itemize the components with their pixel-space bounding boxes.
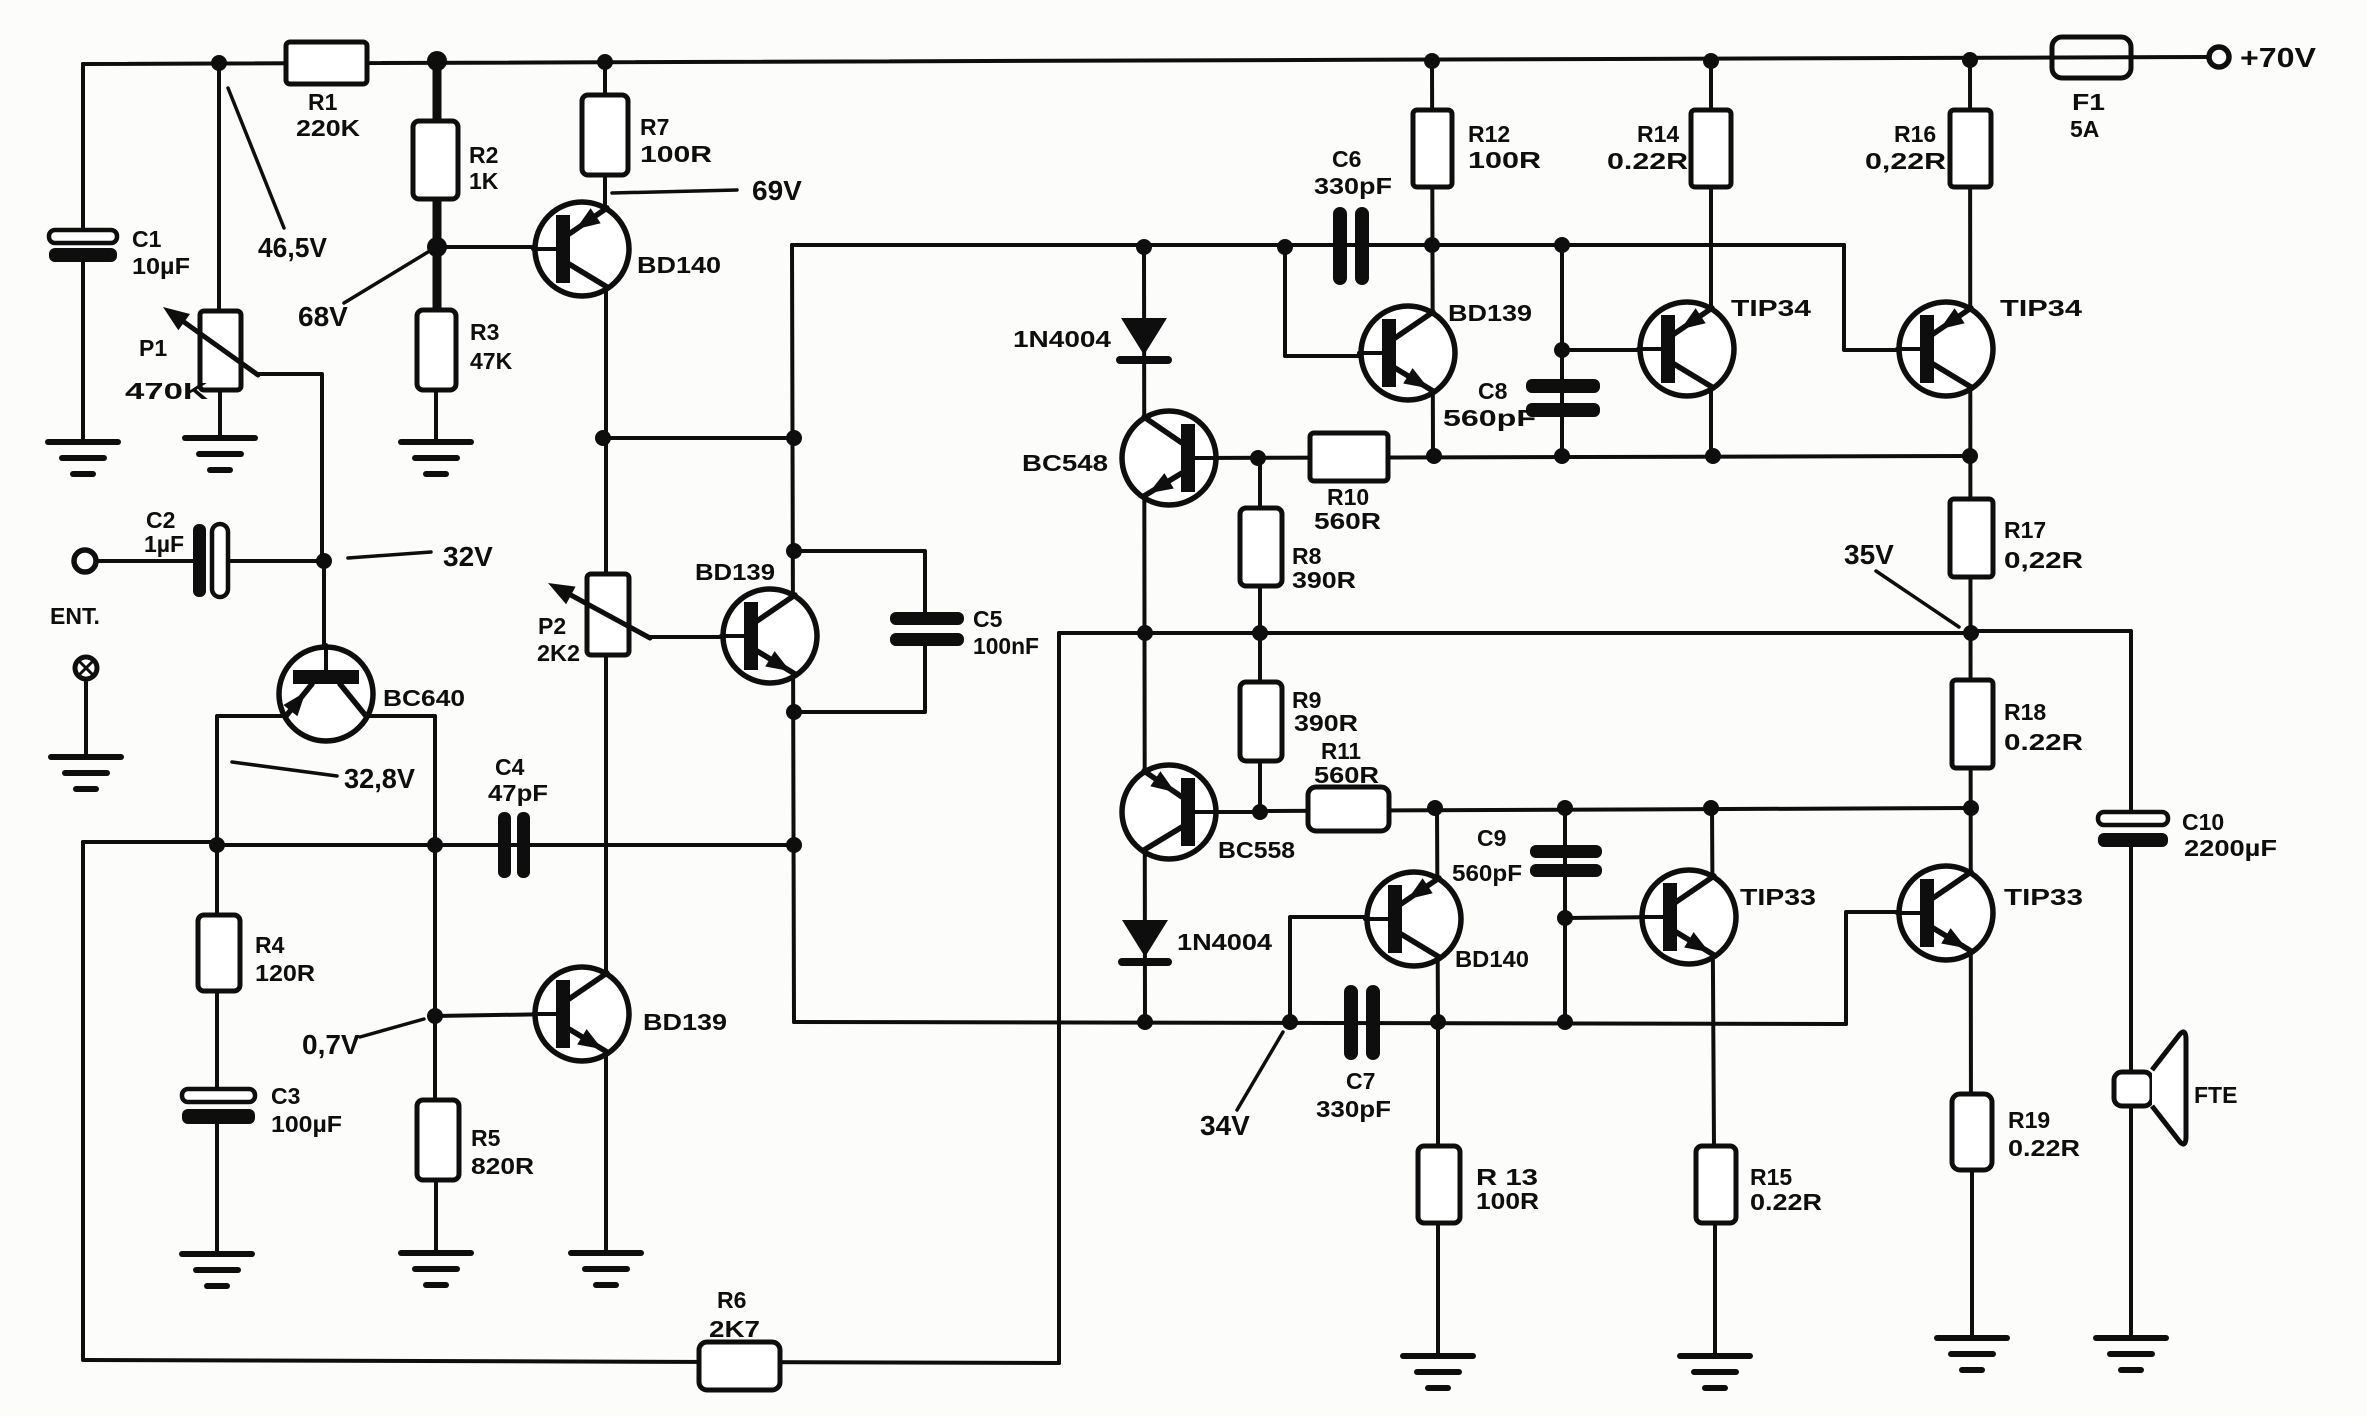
wire R13 to ground [1436, 1221, 1440, 1356]
svg-text:1N4004: 1N4004 [1013, 326, 1111, 352]
transistor Q8 BD140 (lower driver PNP) [1367, 872, 1461, 966]
wire TIP34 mid base [1562, 348, 1667, 352]
svg-text:R15: R15 [1750, 1164, 1792, 1190]
wire C1 to ground [81, 260, 85, 442]
transistor Q6 BC558 (PNP) [1122, 765, 1216, 859]
svg-text:R12: R12 [1468, 121, 1510, 147]
wire BC558 base [1194, 810, 1260, 814]
junction node C9 tap [1557, 910, 1573, 926]
terminal ENT ground lug [75, 657, 97, 679]
wire R2 feed (thick) [433, 61, 442, 125]
svg-text:BC548: BC548 [1022, 450, 1108, 476]
junction node R12 bottom [1424, 237, 1440, 253]
ground (R5) [401, 1250, 471, 1256]
wire C1 branch [81, 64, 85, 232]
speaker FTE [2114, 1072, 2152, 1106]
junction node 0.7V [427, 1008, 443, 1024]
terminal ENT input [74, 550, 96, 572]
svg-text:470K: 470K [125, 378, 209, 404]
wire BD139 base drop [1285, 247, 1385, 356]
svg-text:R8: R8 [1292, 543, 1322, 569]
resistor R11 560R [1308, 787, 1389, 831]
ground (C1) [48, 439, 118, 445]
wire emitter degeneration bus [217, 843, 794, 847]
svg-text:100R: 100R [640, 141, 713, 167]
ground (R19) [1937, 1335, 2007, 1341]
svg-text:F1: F1 [2072, 89, 2105, 115]
svg-text:220K: 220K [296, 115, 360, 141]
wire R11 output wire [1260, 808, 1971, 811]
fuse F1 5A [2052, 37, 2131, 78]
wire TIP33 mid base [1565, 917, 1667, 918]
svg-text:R19: R19 [2008, 1107, 2050, 1133]
svg-text:R5: R5 [471, 1125, 501, 1151]
wire BD140 collector to P2 column [604, 207, 608, 1253]
junction node TIP34 emitter [1705, 448, 1721, 464]
capacitor C5 100nF [890, 612, 964, 625]
resistor R10 560R [1310, 433, 1388, 481]
junction node BD139 emitter [1426, 448, 1442, 464]
svg-text:BC558: BC558 [1218, 837, 1295, 863]
wire C8 column [1560, 245, 1564, 456]
svg-text:R2: R2 [469, 142, 498, 168]
wire left feedback drop [81, 842, 85, 1360]
junction node C5 bottom [786, 704, 802, 720]
wire R12 column [1432, 61, 1433, 456]
svg-text:5A: 5A [2070, 116, 2099, 142]
resistor R9 390R [1240, 682, 1282, 761]
transistor Q10 TIP34 (right PNP) [1899, 302, 1993, 396]
capacitor C9 560pF [1530, 845, 1602, 858]
svg-text:TIP34: TIP34 [2000, 295, 2082, 321]
ground (Q4 emitter) [571, 1250, 641, 1256]
svg-text:TIP33: TIP33 [2004, 884, 2083, 910]
svg-text:0,7V: 0,7V [302, 1029, 360, 1060]
svg-text:ENT.: ENT. [50, 603, 100, 629]
wire upper signal bus [792, 243, 1844, 247]
junction node rail-R7 [597, 54, 613, 70]
svg-text:46,5V: 46,5V [258, 232, 327, 263]
wire BD140 base [441, 245, 557, 249]
svg-text:R1: R1 [308, 89, 338, 115]
wire R19 to ground [1970, 1170, 1974, 1338]
resistor R8 390R [1240, 508, 1282, 586]
svg-text:34V: 34V [1200, 1110, 1250, 1141]
resistor R3 47K [417, 310, 456, 390]
junction node R11 right [1427, 800, 1443, 816]
ground (R3) [401, 439, 471, 445]
svg-text:100nF: 100nF [973, 633, 1039, 659]
junction node emitter left [209, 837, 225, 853]
resistor R12 100R [1413, 110, 1452, 187]
wire VAS column [792, 245, 794, 1022]
junction node rail-R12 [1424, 53, 1440, 69]
wire left feedback loop [83, 840, 217, 844]
wire BD140 collector node [603, 436, 794, 440]
svg-text:R11: R11 [1321, 738, 1361, 764]
svg-text:1N4004: 1N4004 [1177, 929, 1272, 955]
svg-text:100R: 100R [1476, 1188, 1539, 1214]
wire BC640 base drop [322, 561, 326, 650]
resistor R15 0.22R [1696, 1146, 1736, 1223]
junction node rail-C1/P1/R1 [211, 55, 227, 71]
svg-text:R6: R6 [717, 1287, 746, 1313]
wire R4 branch [215, 845, 219, 1091]
svg-text:560pF: 560pF [1452, 860, 1522, 886]
svg-text:R14: R14 [1637, 121, 1679, 147]
svg-text:C1: C1 [132, 226, 162, 252]
transistor Q2 BC640 (input PNP) [279, 647, 373, 741]
wire P1 to ground [218, 388, 222, 438]
svg-text:1K: 1K [469, 168, 499, 194]
svg-text:330pF: 330pF [1316, 1096, 1391, 1122]
svg-text:47K: 47K [470, 348, 513, 374]
wire mid output bus [1059, 631, 1971, 635]
potentiometer P1 470K [200, 311, 241, 390]
junction node 34V [1282, 1014, 1298, 1030]
transistor Q7 BD139 (upper driver NPN) [1361, 306, 1455, 400]
svg-text:C4: C4 [495, 754, 525, 780]
wire 34V pointer [1237, 1032, 1283, 1110]
svg-text:120R: 120R [255, 960, 315, 986]
junction node R17 top [1962, 448, 1978, 464]
wire R13 branch [1436, 1022, 1440, 1148]
svg-text:C5: C5 [973, 606, 1003, 632]
svg-text:68V: 68V [298, 301, 348, 332]
wire driver bias wire [1194, 456, 1970, 458]
resistor R13 100R [1418, 1146, 1460, 1223]
svg-text:2K7: 2K7 [709, 1316, 760, 1342]
resistor R5 820R [417, 1100, 459, 1180]
svg-text:BD139: BD139 [1448, 300, 1532, 326]
wire 32V pointer [348, 552, 431, 558]
svg-text:P2: P2 [538, 613, 566, 639]
wire 0,7V pointer [360, 1019, 424, 1037]
capacitor C8 560pF [1526, 379, 1600, 393]
svg-text:47pF: 47pF [488, 780, 548, 806]
capacitor C4 47pF [498, 812, 511, 878]
svg-text:R18: R18 [2004, 699, 2046, 725]
diode D1 1N4004 (upper) [1121, 318, 1167, 355]
svg-text:BD139: BD139 [643, 1009, 727, 1035]
svg-text:560R: 560R [1314, 508, 1381, 534]
wire C3 to ground [215, 1122, 219, 1254]
wire feedback riser [1057, 633, 1061, 1363]
svg-text:32,8V: 32,8V [344, 763, 415, 794]
svg-text:0,22R: 0,22R [1865, 148, 1947, 174]
wire R7 column [603, 61, 607, 210]
svg-text:BC640: BC640 [383, 685, 465, 711]
junction node TIP33 collector [1703, 800, 1719, 816]
junction node rail-R2 (thick) [427, 51, 447, 71]
capacitor C2 1uF [193, 524, 206, 597]
transistor Q5 BC548 (NPN) [1122, 411, 1216, 505]
svg-text:+70V: +70V [2240, 42, 2316, 73]
ground (P1) [185, 435, 255, 441]
svg-text:R 13: R 13 [1476, 1164, 1538, 1190]
wire 32,8V pointer [232, 762, 337, 776]
wire R14 column [1709, 61, 1713, 456]
transistor Q12 TIP33 (right NPN) [1899, 866, 1993, 960]
junction node emitter right [427, 837, 443, 853]
svg-text:0.22R: 0.22R [1750, 1189, 1822, 1215]
svg-text:100R: 100R [1468, 147, 1542, 173]
junction node R18 bottom [1963, 800, 1979, 816]
svg-text:C2: C2 [146, 507, 175, 533]
svg-text:C6: C6 [1332, 146, 1361, 172]
junction node C8 bottom [1554, 448, 1570, 464]
junction node R8/R9 [1252, 625, 1268, 641]
svg-text:R10: R10 [1327, 484, 1369, 510]
resistor R17 0.22R [1950, 499, 1993, 577]
wire TIP33 mid column [1712, 808, 1714, 1148]
capacitor C7 330pF [1344, 985, 1358, 1060]
ground (C3) [182, 1251, 252, 1257]
svg-text:1µF: 1µF [144, 531, 184, 557]
wire R2-R3 link (thick) [433, 195, 442, 314]
svg-text:R16: R16 [1894, 121, 1936, 147]
junction node BD139 base tap [1277, 239, 1293, 255]
junction node VAS top [786, 430, 802, 446]
junction node rail-R14 [1703, 53, 1719, 69]
junction node 35V output [1963, 625, 1979, 641]
resistor R1 220K [286, 42, 367, 84]
svg-text:C10: C10 [2182, 809, 2224, 835]
svg-text:390R: 390R [1292, 567, 1356, 593]
junction node BD140 collector [595, 430, 611, 446]
wire R5 branch [433, 845, 437, 1102]
junction node rail-R16 [1962, 52, 1978, 68]
junction node BC558 base [1252, 804, 1268, 820]
wire C10 to speaker to ground [2129, 845, 2133, 1338]
svg-text:2K2: 2K2 [537, 640, 580, 666]
svg-text:560pF: 560pF [1443, 405, 1536, 431]
junction node BC548 emitter [1137, 625, 1153, 641]
wire diode column [1144, 247, 1145, 1022]
wire P1 branch [217, 63, 221, 313]
svg-text:C3: C3 [271, 1083, 300, 1109]
wire BC640 collector link [366, 716, 435, 845]
svg-text:C9: C9 [1477, 825, 1506, 851]
wire R5 to ground [434, 1178, 438, 1253]
transistor Q9 TIP34 (mid PNP) [1640, 302, 1734, 396]
wire lower signal bus [794, 1022, 1846, 1024]
svg-text:10µF: 10µF [132, 253, 190, 279]
potentiometer P2 2K2 [587, 574, 629, 655]
svg-text:100µF: 100µF [271, 1111, 342, 1137]
svg-text:R3: R3 [470, 319, 499, 345]
svg-text:0.22R: 0.22R [2004, 729, 2084, 755]
svg-text:R4: R4 [255, 932, 285, 958]
svg-text:BD139: BD139 [695, 559, 775, 585]
wire P1 wiper link [257, 374, 322, 561]
resistor R18 0.22R [1952, 680, 1993, 768]
svg-text:C7: C7 [1346, 1068, 1375, 1094]
svg-text:560R: 560R [1314, 762, 1379, 788]
wire input to C2 [95, 559, 193, 563]
svg-text:0.22R: 0.22R [1607, 148, 1689, 174]
wire R3 to ground [434, 386, 438, 442]
wire right power column [1970, 58, 1971, 1170]
svg-text:69V: 69V [752, 175, 802, 206]
junction node C9 bottom [1557, 1014, 1573, 1030]
wire C2 to BC640 base [228, 559, 324, 563]
terminal +70V output [2209, 47, 2229, 67]
wire C5 loop top [794, 551, 925, 614]
wire BD139 lower-left base [435, 1014, 558, 1016]
transistor Q4 BD139 (lower-left NPN) [535, 967, 629, 1061]
svg-text:TIP33: TIP33 [1740, 884, 1816, 910]
resistor R2 1K [413, 121, 458, 199]
capacitor C10 2200uF [2098, 812, 2168, 825]
transistor Q3 BD139 (VAS NPN) [723, 589, 817, 683]
wire TIP33 right base drop [1846, 912, 1921, 1024]
junction node diode top [1136, 239, 1152, 255]
junction node C4 right [786, 837, 802, 853]
resistor R19 0.22R [1952, 1094, 1992, 1170]
ground (ENT) [51, 754, 121, 760]
svg-text:C8: C8 [1478, 378, 1508, 404]
wire output to C10 [1971, 631, 2131, 814]
resistor R7 100R [582, 95, 628, 175]
resistor R4 120R [198, 915, 240, 991]
svg-text:32V: 32V [443, 541, 493, 572]
resistor R14 0.22R [1691, 110, 1731, 187]
capacitor C3 100uF [182, 1089, 255, 1102]
junction node TIP34 base [1554, 342, 1570, 358]
svg-text:390R: 390R [1294, 710, 1358, 736]
svg-text:0,22R: 0,22R [2004, 547, 2084, 573]
svg-text:820R: 820R [471, 1153, 534, 1179]
wire P2 wiper to BD139 base [650, 635, 745, 639]
svg-text:0.22R: 0.22R [2008, 1135, 2080, 1161]
diode D2 1N4004 (lower) [1122, 920, 1168, 957]
wire TIP34 right base drop [1844, 245, 1921, 350]
wire +70V supply rail [83, 57, 2209, 64]
wire BD140 lower base drop [1290, 917, 1389, 1022]
svg-text:FTE: FTE [2194, 1082, 2237, 1108]
wire BD140 lower column [1437, 808, 1438, 1022]
ground (R15) [1680, 1353, 1750, 1359]
junction node R2/R3 base [427, 237, 447, 257]
junction node C9 top [1557, 800, 1573, 816]
wire 35V pointer [1876, 571, 1959, 627]
wire 68V pointer [344, 252, 428, 303]
svg-text:BD140: BD140 [1455, 946, 1529, 972]
junction node 32V input [316, 553, 332, 569]
wire R8-R9 column [1258, 458, 1260, 812]
svg-text:330pF: 330pF [1314, 173, 1392, 199]
resistor R6 2K7 [699, 1342, 780, 1390]
junction node BC548 base [1250, 450, 1266, 466]
junction node diode bottom [1137, 1014, 1153, 1030]
resistor R16 0.22R [1950, 110, 1991, 187]
wire C5 loop bottom [794, 644, 925, 712]
svg-text:TIP34: TIP34 [1731, 295, 1811, 321]
wire 69V pointer [612, 190, 737, 193]
wire bottom feedback run [85, 1360, 1059, 1363]
svg-text:35V: 35V [1844, 539, 1894, 570]
svg-text:BD140: BD140 [637, 252, 721, 278]
wire 46,5V pointer [228, 88, 284, 228]
wire C9 column [1563, 808, 1567, 1022]
wire BC640 emitter loop [217, 716, 287, 845]
svg-text:R7: R7 [640, 114, 669, 140]
ground (speaker) [2096, 1335, 2166, 1341]
junction node C5 top [786, 543, 802, 559]
transistor Q1 BD140 (input PNP) [535, 202, 629, 296]
junction node BD140 lower collector [1430, 1014, 1446, 1030]
ground (R13) [1403, 1353, 1473, 1359]
junction node C8 top [1554, 237, 1570, 253]
transistor Q11 TIP33 (mid NPN) [1642, 870, 1736, 964]
wire R15 to ground [1713, 1221, 1717, 1356]
wire ENT ground terminal lead [84, 678, 88, 757]
svg-text:P1: P1 [139, 335, 167, 361]
capacitor C1 10uF [49, 230, 117, 243]
capacitor C6 330pF [1333, 207, 1347, 285]
svg-text:R17: R17 [2004, 517, 2046, 543]
svg-text:2200µF: 2200µF [2184, 835, 2277, 861]
